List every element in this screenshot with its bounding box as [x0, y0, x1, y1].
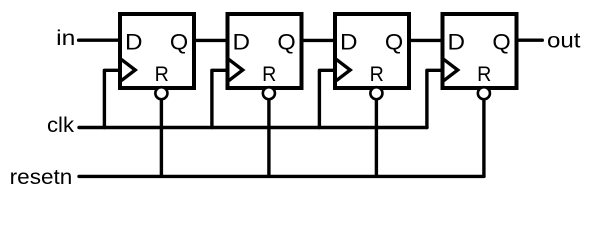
svg-text:D: D	[125, 29, 143, 54]
flip-flop U2 body	[228, 14, 302, 88]
clock wedge U2	[229, 59, 243, 80]
wire: U1.Q to U2.D	[192, 39, 232, 42]
wire: clk riser to U2 clock pin	[212, 70, 227, 127]
reset bubble U4	[478, 87, 490, 99]
wire: clk riser to U4 clock pin	[427, 70, 442, 127]
svg-text:Q: Q	[277, 29, 295, 54]
svg-text:in: in	[56, 26, 75, 50]
flip-flop U3 body	[335, 14, 409, 88]
flip-flop U1 body	[120, 14, 194, 88]
wire: resetn riser to U4.R bubble	[482, 93, 485, 176]
svg-text:Q: Q	[492, 29, 510, 54]
svg-text:R: R	[370, 62, 384, 86]
svg-text:R: R	[155, 62, 169, 86]
wire: clk riser to U3 clock pin	[319, 70, 334, 127]
clock wedge U4	[444, 59, 458, 80]
wire: U4.Q to out	[517, 39, 543, 42]
svg-text:Q: Q	[385, 29, 403, 54]
wire: resetn riser to U1.R bubble	[160, 93, 163, 176]
wire: resetn riser to U2.R bubble	[267, 93, 270, 176]
svg-text:R: R	[477, 62, 491, 86]
svg-text:resetn: resetn	[10, 165, 73, 189]
wire: resetn riser to U3.R bubble	[375, 93, 378, 176]
flip-flop U4 body	[443, 14, 517, 88]
wire: U2.Q to U3.D	[300, 39, 340, 42]
reset bubble U1	[155, 87, 167, 99]
svg-text:R: R	[262, 62, 276, 86]
wire: clk riser to U1 clock pin	[104, 70, 119, 127]
wire: U3.Q to U4.D	[407, 39, 447, 42]
svg-text:D: D	[233, 29, 251, 54]
reset bubble U3	[370, 87, 382, 99]
svg-text:D: D	[448, 29, 466, 54]
svg-text:out: out	[547, 28, 581, 52]
svg-text:clk: clk	[47, 113, 74, 137]
wire: clk net horizontal	[79, 126, 427, 129]
clock wedge U3	[336, 59, 350, 80]
svg-text:D: D	[340, 29, 358, 54]
svg-text:Q: Q	[170, 29, 188, 54]
wire: in to U1.D	[79, 39, 120, 42]
wire: resetn net horizontal	[79, 175, 484, 178]
clock wedge U1	[121, 59, 135, 80]
reset bubble U2	[263, 87, 275, 99]
